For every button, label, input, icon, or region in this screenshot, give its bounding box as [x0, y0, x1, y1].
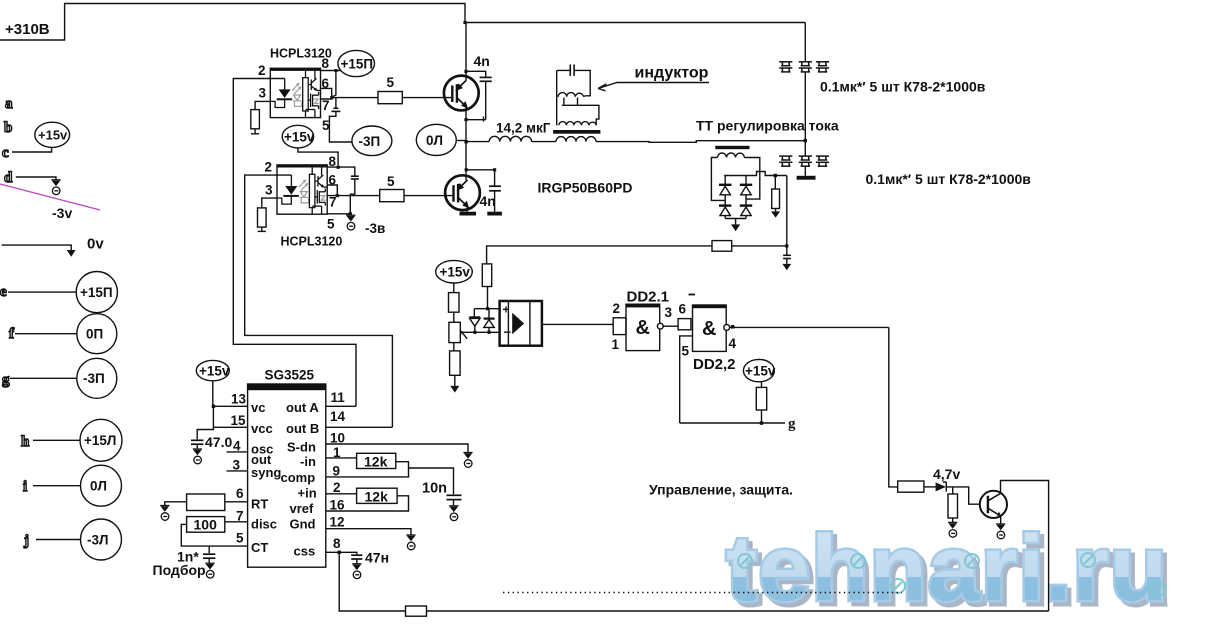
svg-text:13: 13 [231, 392, 247, 407]
capacitor bank C1 (upper, 0.1uF x5) [779, 62, 792, 72]
wire pin6 [321, 88, 332, 96]
resistor bottom rail [406, 606, 427, 616]
svg-text:7: 7 [329, 195, 337, 210]
wire css to bottom rail [339, 552, 405, 611]
wire f [15, 333, 77, 335]
svg-text:+15Л: +15Л [84, 433, 116, 448]
svg-text:RT: RT [251, 497, 268, 512]
svg-text:d: d [4, 170, 13, 186]
terminal -3П [77, 358, 117, 398]
svg-text:&: & [702, 318, 716, 340]
wire 0v with arrow [2, 245, 72, 250]
wire secondary left riser [556, 70, 558, 125]
wire 100 loop to CT [181, 524, 247, 546]
svg-text:ТТ регулировка тока: ТТ регулировка тока [696, 118, 839, 134]
svg-text:css: css [294, 544, 316, 559]
svg-text:HCPL3120: HCPL3120 [281, 235, 343, 249]
svg-text:+15v: +15v [440, 265, 471, 280]
svg-text:1: 1 [612, 337, 620, 352]
tank top with capacitor [557, 70, 591, 95]
wire 0Л to node [456, 140, 466, 142]
svg-text:vref: vref [290, 501, 315, 516]
wire pin3 lower [262, 198, 277, 208]
resistor load TT [774, 176, 776, 190]
potentiometer RP1 [449, 322, 460, 342]
wire +15v down [453, 283, 455, 293]
power terminal +15v (gate pullup) [743, 359, 774, 381]
svg-text:IRGP50B60PD: IRGP50B60PD [538, 180, 633, 196]
transformer TT core [715, 146, 749, 149]
wire pin2 lower to out B [245, 175, 393, 427]
svg-text:disc: disc [251, 517, 277, 532]
diode VD3 [719, 204, 731, 206]
wire +310V step [0, 4, 805, 41]
wire comp node to 10n [409, 468, 454, 494]
opto-driver U1 interior [270, 71, 320, 118]
svg-text:47н: 47н [365, 550, 389, 566]
busbar under 4n [487, 212, 502, 216]
wire output to gate resistor [332, 97, 378, 99]
inductor L1 14.2uH [489, 136, 531, 141]
power terminal -3П (driver) [352, 126, 392, 156]
svg-text:CT: CT [251, 540, 268, 555]
pin 11 out A [326, 405, 356, 407]
svg-text:vc: vc [251, 400, 265, 415]
svg-text:syng: syng [251, 465, 281, 480]
svg-text:DD2.1: DD2.1 [627, 289, 670, 306]
svg-text:Управление, защита.: Управление, защита. [649, 482, 793, 498]
svg-text:11: 11 [331, 390, 346, 405]
watermark copyright circles [738, 553, 1165, 596]
wire pin8 to +15П [321, 70, 342, 72]
wire emitter VT1 to 0Л node [465, 106, 467, 142]
svg-text:3: 3 [233, 458, 241, 473]
pin 14 out B [326, 426, 393, 428]
wire to IGBT gate [402, 97, 452, 99]
wire Vcc decoupling drop [332, 71, 336, 109]
bottom rail [406, 610, 1049, 612]
resistor 5 (lower gate) [380, 190, 404, 202]
resistor base-return [952, 487, 954, 494]
power terminal +15v (IC) [196, 360, 229, 380]
svg-text:&: & [636, 317, 650, 339]
svg-text:-in: -in [300, 454, 316, 469]
bridge plus lead with hop [724, 172, 787, 176]
svg-text:a: a [5, 96, 13, 112]
svg-text:2: 2 [333, 480, 341, 495]
pin 9 comp [326, 462, 409, 477]
pin 3 syng [227, 470, 248, 472]
svg-text:4n: 4n [480, 193, 496, 209]
resistor pullup [761, 382, 763, 388]
diode VD1 [719, 184, 731, 186]
svg-text:b: b [4, 120, 12, 136]
optocoupler U3 [500, 301, 542, 346]
wire j [36, 539, 81, 541]
svg-text:-3v: -3v [52, 205, 72, 221]
wire pin2 upper to out A [233, 79, 356, 407]
svg-text:g: g [2, 372, 10, 388]
resistor 5 (upper gate) [378, 92, 402, 104]
svg-text:+15П: +15П [80, 285, 113, 300]
transistor VT3 [980, 491, 1007, 518]
wire e [8, 291, 76, 293]
svg-text:9: 9 [333, 464, 341, 479]
capacitor Vcc-Vee upper [333, 107, 338, 109]
wire g-net [680, 422, 785, 424]
svg-text:14: 14 [330, 409, 346, 424]
transformer TT secondary [718, 153, 745, 158]
wire pin7 / output lower [327, 195, 380, 197]
svg-text:-3П: -3П [83, 371, 105, 386]
wire pin5 lower [327, 213, 350, 215]
wire pin7 / output node [321, 97, 332, 99]
work coil (inductor) [558, 93, 583, 97]
transistor VT1 upper IGBT [444, 76, 479, 111]
wire gate1 to gate2 [663, 325, 678, 327]
LED D1 [279, 89, 291, 98]
svg-text:12k: 12k [364, 454, 388, 470]
svg-text:i: i [23, 479, 27, 495]
resistor 12k (1) [357, 453, 396, 468]
svg-text:8: 8 [322, 56, 330, 71]
diode VD5 [473, 309, 475, 318]
wire HV dropper down to cap bank [804, 23, 806, 63]
dotted separator [503, 592, 902, 594]
svg-text:3: 3 [665, 305, 673, 320]
svg-text:16: 16 [330, 498, 346, 513]
resistor R gate-return upper [251, 110, 260, 129]
transformer T1 secondary [559, 122, 596, 126]
ground d [51, 180, 60, 195]
terminal 0Л (mid-point) [416, 124, 456, 155]
minus mark [689, 294, 696, 296]
wire c to +15v [12, 148, 52, 153]
svg-text:2: 2 [258, 63, 266, 78]
tank link bar [562, 105, 599, 125]
power terminal +15v (left) [35, 122, 70, 147]
svg-text:7: 7 [236, 509, 244, 524]
power terminal +15v (reg) [436, 260, 473, 283]
resistor RT [187, 494, 225, 511]
capacitor 4n upper [466, 71, 486, 77]
svg-text:-3в: -3в [365, 221, 385, 236]
wire DD2.2 output [730, 326, 889, 328]
pin 4 osc out [227, 451, 248, 453]
wire Vee lower [350, 179, 355, 214]
capacitor at feedback corner [786, 246, 788, 255]
wire +15v to vc/vcc [213, 381, 248, 428]
LED anode riser [284, 79, 286, 90]
wire plus input [474, 308, 499, 310]
svg-text:7: 7 [322, 98, 330, 113]
power terminal +15П (driver) [338, 50, 375, 76]
resistor feedback (horizontal) [712, 241, 732, 252]
svg-text:0.1мк*′ 5 шт К78-2*1000в: 0.1мк*′ 5 шт К78-2*1000в [820, 79, 986, 95]
bridge chain links [724, 176, 726, 219]
svg-text:0.1мк*′ 5 шт К78-2*1000в: 0.1мк*′ 5 шт К78-2*1000в [866, 171, 1032, 187]
gate DD2.2 input stub [678, 319, 691, 330]
wire to lower IGBT gate [404, 195, 454, 197]
svg-text:h: h [21, 434, 30, 450]
wire HV dropper mid [804, 72, 806, 156]
svg-text:comp: comp [281, 470, 316, 485]
terminal 0П [77, 314, 117, 354]
svg-text:g: g [788, 416, 796, 432]
svg-text:100: 100 [194, 517, 218, 533]
svg-text:6: 6 [679, 302, 687, 317]
svg-text:15: 15 [231, 413, 247, 428]
pin 8 css [326, 552, 357, 554]
svg-text:12: 12 [330, 515, 345, 530]
crop mark (magenta line) [0, 184, 100, 210]
wire pin3 upper [255, 101, 270, 109]
wire pin8 stub [327, 167, 355, 176]
svg-text:Gnd: Gnd [290, 517, 316, 532]
svg-text:SG3525: SG3525 [265, 368, 315, 383]
svg-text:3: 3 [265, 183, 273, 198]
upper transistor [314, 71, 316, 79]
svg-text:+310В: +310В [5, 21, 50, 38]
light arrows [292, 83, 302, 107]
terminal +15Л [80, 419, 122, 461]
svg-text:5: 5 [387, 174, 395, 189]
pin 10 S-dn [326, 444, 468, 453]
diode VD6 [488, 309, 490, 318]
svg-text:c: c [2, 145, 9, 161]
pin 16 vref [326, 496, 409, 511]
capacitor 47.0 [197, 427, 213, 439]
svg-text:out B: out B [286, 421, 319, 436]
svg-text:3: 3 [259, 86, 267, 101]
wire L1 to T1 primary [532, 141, 556, 143]
wire opto out [542, 323, 613, 325]
resistor 100 [187, 517, 225, 533]
resistor feedback vertical [482, 264, 491, 287]
wire feedback down [786, 176, 788, 246]
svg-text:+15v: +15v [284, 129, 315, 144]
svg-text:-3Л: -3Л [87, 532, 108, 547]
wire pin6 [327, 185, 337, 194]
wire g [10, 377, 77, 379]
lower mosfet [310, 94, 312, 108]
IC U4 SG3525 body [248, 384, 326, 567]
svg-text:+15v: +15v [745, 363, 776, 378]
svg-text:10n: 10n [422, 481, 447, 497]
bridge minus lead [725, 219, 746, 225]
svg-text:4: 4 [729, 336, 737, 351]
pin 12 Gnd [326, 529, 411, 535]
inversion bubble DD2.1 [657, 323, 663, 329]
resistor 12k (2) [357, 488, 398, 503]
wire h [33, 439, 80, 441]
capacitor 10n [447, 494, 462, 496]
svg-text:+: + [503, 303, 510, 317]
resistor reg top [449, 293, 460, 313]
svg-text:14,2 мкГ: 14,2 мкГ [496, 121, 551, 136]
inversion bubble DD2.2 [724, 325, 730, 331]
power terminal +15v (driver supply) [282, 125, 313, 148]
wire minus input (wiper line) [460, 331, 499, 333]
LED cathode step [270, 100, 284, 107]
svg-text:47.0: 47.0 [205, 434, 232, 450]
gate DD2.2 body [693, 305, 727, 351]
opto-driver U1 body [270, 68, 320, 117]
svg-text:5: 5 [327, 217, 335, 232]
pin 5 wire [680, 336, 693, 423]
svg-text:Подбор: Подбор [153, 562, 206, 578]
svg-text:−: − [504, 325, 512, 340]
resistor R gate-return lower [258, 208, 267, 227]
svg-text:5: 5 [682, 344, 690, 359]
wire Vee to -3П [329, 111, 352, 142]
capacitor 4n lower [466, 170, 495, 186]
capacitor Vcc-Vee lower [351, 175, 359, 177]
svg-text:1: 1 [333, 445, 341, 460]
gate DD2.1 input stub [613, 318, 626, 335]
capacitor 1n [208, 546, 210, 553]
svg-text:5: 5 [236, 531, 244, 546]
wire DD2.2 out down [889, 327, 898, 487]
svg-text:+15v: +15v [199, 363, 230, 378]
gate DD2.1 body [626, 304, 660, 350]
svg-text:индуктор: индуктор [635, 65, 709, 82]
capacitor 47н [351, 554, 362, 556]
svg-text:2: 2 [265, 160, 273, 175]
transformer T1 core [553, 130, 600, 134]
wire TT right to bridge AC2 [744, 158, 760, 200]
svg-text:6: 6 [236, 486, 244, 501]
terminal +15П [76, 272, 117, 313]
wire collector VT3 [1001, 481, 1049, 612]
diode VD2 [740, 184, 752, 186]
svg-text:4: 4 [233, 439, 241, 454]
wire feedback across [487, 246, 787, 264]
output stage block [303, 78, 309, 111]
capacitor bank C2 (lower) [779, 156, 792, 166]
wire emitter VT3 [1000, 516, 1002, 524]
svg-text:10: 10 [330, 431, 345, 446]
wire to busbar [804, 166, 806, 176]
arrow pointer to tank [598, 83, 709, 91]
svg-text:2: 2 [613, 301, 621, 316]
svg-text:+15П: +15П [341, 56, 374, 71]
svg-text:0v: 0v [87, 236, 104, 253]
svg-text:out A: out A [286, 400, 319, 415]
wire +15v to pin8 [298, 148, 338, 166]
wire collector VT1 [465, 23, 467, 81]
resistor protection [898, 481, 924, 492]
opto-driver U2 interior [277, 167, 327, 214]
svg-text:5: 5 [387, 75, 395, 90]
ground -3в [346, 215, 355, 230]
opto-driver U2 body [277, 165, 327, 214]
wire i [33, 485, 81, 487]
svg-text:0Л: 0Л [426, 133, 443, 148]
svg-text:4n: 4n [474, 53, 490, 69]
svg-text:0П: 0П [86, 327, 103, 342]
svg-text:0Л: 0Л [90, 479, 107, 494]
terminal 0Л [81, 465, 122, 506]
svg-text:vcc: vcc [251, 421, 273, 436]
transistor VT2 lower IGBT [445, 175, 480, 210]
svg-text:tehnari.ru: tehnari.ru [726, 516, 1168, 620]
busbar terminal [797, 176, 816, 180]
svg-text:DD2,2: DD2,2 [693, 356, 736, 373]
svg-text:+15v: +15v [38, 128, 68, 143]
wire RT to gnd [165, 502, 187, 506]
wire collector VT2 [465, 142, 467, 180]
svg-text:-3П: -3П [359, 134, 381, 149]
zener diode 4.7v [936, 482, 946, 491]
svg-text:S-dn: S-dn [287, 440, 316, 455]
svg-text:4,7v: 4,7v [933, 466, 960, 482]
diode VD4 [740, 204, 752, 206]
svg-text:j: j [23, 533, 29, 549]
svg-text:+in: +in [298, 486, 317, 501]
svg-text:12k: 12k [365, 489, 389, 505]
transformer T1 primary [556, 137, 596, 142]
pin 1 -in [326, 457, 357, 459]
wire node to L1 [468, 141, 490, 143]
resistor reg bottom [450, 351, 461, 375]
busbar under VT2 [460, 212, 477, 216]
wire T1 primary to TT [596, 141, 805, 143]
wire T1 secondary right end [584, 96, 586, 97]
wire emitter VT2 [466, 207, 468, 212]
svg-text:e: e [0, 284, 7, 300]
wire d [16, 177, 56, 180]
svg-text:8: 8 [333, 536, 341, 551]
pin 2 +in [326, 493, 357, 495]
wire TT left to bridge AC1 [711, 158, 725, 201]
terminal -3Л [81, 519, 122, 560]
